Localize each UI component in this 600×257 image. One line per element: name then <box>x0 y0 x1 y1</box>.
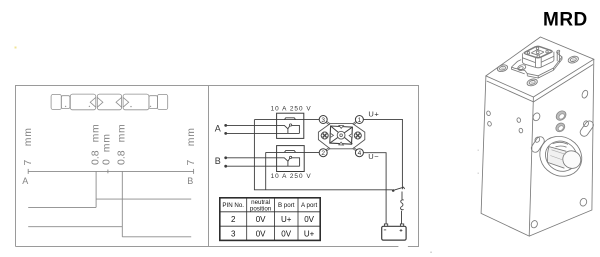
svg-text:mm: mm <box>115 123 127 142</box>
svg-text:B: B <box>215 156 221 166</box>
svg-text:0: 0 <box>100 159 112 165</box>
svg-text:U+: U+ <box>281 215 292 224</box>
svg-text:U+: U+ <box>304 230 315 239</box>
svg-text:10 A 250 V: 10 A 250 V <box>271 173 312 180</box>
svg-text:0V: 0V <box>304 215 314 224</box>
svg-text:A port: A port <box>301 202 317 209</box>
svg-text:mm: mm <box>185 127 197 146</box>
svg-text:0V: 0V <box>256 230 266 239</box>
svg-text:7: 7 <box>22 160 34 166</box>
svg-text:A: A <box>215 123 221 133</box>
svg-text:0V: 0V <box>256 215 266 224</box>
svg-text:0V: 0V <box>281 230 291 239</box>
svg-text:U−: U− <box>368 152 379 161</box>
svg-text:B port: B port <box>278 202 295 209</box>
svg-text:mm: mm <box>22 127 34 146</box>
svg-text:10 A 250 V: 10 A 250 V <box>271 106 312 113</box>
svg-text:7: 7 <box>185 160 197 166</box>
svg-text:3: 3 <box>321 117 325 124</box>
svg-text:1: 1 <box>358 117 362 124</box>
svg-text:2: 2 <box>321 150 325 157</box>
svg-text:4: 4 <box>358 150 362 157</box>
svg-text:3: 3 <box>231 230 236 239</box>
svg-text:U+: U+ <box>368 109 379 118</box>
svg-text:PIN No.: PIN No. <box>222 202 244 209</box>
svg-text:position: position <box>250 205 272 212</box>
svg-text:mm: mm <box>100 133 112 152</box>
svg-text:2: 2 <box>231 215 236 224</box>
svg-text:A: A <box>22 176 28 186</box>
svg-text:0.8: 0.8 <box>115 150 127 165</box>
svg-text:B: B <box>187 176 193 186</box>
svg-text:MRD: MRD <box>543 10 588 31</box>
